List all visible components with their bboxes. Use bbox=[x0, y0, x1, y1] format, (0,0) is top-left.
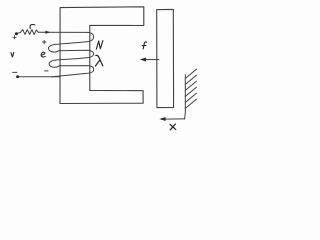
wire resistor to coil bbox=[38, 31, 87, 33]
coil (3 turns) bbox=[48, 32, 93, 77]
node dot top bbox=[15, 32, 18, 35]
label N bbox=[96, 41, 103, 50]
minus sign bottom-left (v) bbox=[13, 71, 17, 73]
node dot bottom bbox=[16, 75, 19, 78]
label e bbox=[41, 52, 45, 57]
f arrowhead bbox=[140, 58, 146, 62]
label x bbox=[170, 124, 176, 130]
current arrowhead on top wire bbox=[45, 31, 50, 34]
armature plate bbox=[157, 9, 174, 107]
label f bbox=[142, 42, 146, 49]
wall hatching bbox=[185, 69, 196, 78]
resistor r zigzag bbox=[21, 30, 39, 35]
core (C-shaped magnetic core) bbox=[60, 7, 144, 104]
label v bbox=[11, 52, 14, 57]
bottom wire bbox=[18, 76, 60, 78]
f arrow line bbox=[144, 59, 159, 61]
wall line bbox=[184, 75, 187, 119]
label r bbox=[30, 25, 35, 29]
label lambda bbox=[95, 55, 102, 66]
plus sign top-left (v) bbox=[13, 36, 16, 39]
plus sign near e bbox=[43, 40, 47, 44]
x arrowhead bbox=[159, 117, 165, 121]
x arrow line bbox=[161, 118, 185, 120]
top wire: node to resistor bbox=[16, 32, 20, 34]
minus sign below e bbox=[45, 70, 48, 72]
